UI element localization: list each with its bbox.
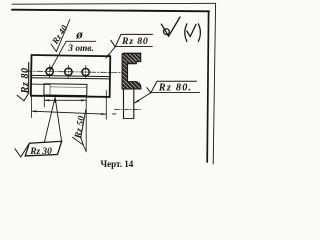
Rz80 mid leader arrow [106,54,110,59]
roughness symbol Rz80 mid: shelf under text [115,46,152,48]
side view: stem bottom [124,117,134,119]
small dash right of extension [113,113,116,115]
slot inner step vertical [49,84,51,95]
hatch: web [123,63,127,82]
arrowheads [32,54,140,115]
arrow at hole 1 (holes note leader) [49,66,53,71]
roughness symbol Rz80 bottom-right: leader [134,93,151,104]
dimension extension line right (slot, long, carries Rz50) [85,95,87,151]
frame: outer thin top border [12,2,216,5]
roughness symbol Rz80 left: vee [17,93,29,101]
slot width dimension line [44,99,86,101]
hole 2 [65,68,73,76]
overall dim left arrow [32,110,37,112]
side view: section outline [122,53,141,89]
horizontal centerline through holes [26,71,125,73]
svg-text:Rz 80.: Rz 80. [158,83,193,94]
hole 3 [82,68,90,76]
step line 1 [31,75,110,76]
leader from hole 1 to holes note [50,41,67,71]
parenthesis right [198,24,200,42]
roughness symbol Rz50: leg [81,110,86,138]
hatch: middle flange [123,82,140,88]
frame: inner thick top border [12,10,209,12]
overall dimension line [31,111,106,114]
side view: lower stem right edge [133,89,135,118]
roughness symbol Rz80 mid: vee and bar [111,34,153,46]
slot rectangle [44,84,87,96]
frame: outer thin right border [213,4,215,164]
roughness symbol Rz40: long leg [56,20,69,52]
parenthesis left [185,24,187,42]
holes note shelf [66,40,96,42]
roughness symbol Rz80 mid: leader [106,47,115,58]
extension line right lower [105,91,107,120]
svg-text:ø: ø [75,27,83,42]
Rz30 leader spike [44,97,61,142]
svg-text:Rz 30: Rz 30 [29,147,52,157]
side view: lower centerline [115,108,141,110]
plate outline (front view) [31,55,110,97]
Rz30 tick [15,143,29,157]
roughness symbol Rz50: vee [73,137,87,152]
svg-text:3 отв.: 3 отв. [67,44,94,54]
hole 1 [46,68,54,76]
step ledge line [31,83,50,85]
dimension extension line left (slot) [43,96,45,107]
frame: inner thick right border [207,11,208,162]
Rz80 bottom leader arrow [134,100,139,104]
hatching of section [123,54,140,88]
roughness symbol Rz80 bottom-right: shelf under text [151,91,200,93]
hole 3 vertical centerline [85,65,87,78]
extension line plate left [30,97,32,118]
slot dim right arrow [81,99,86,101]
general roughness mark (checkmark with circle) [161,17,180,36]
roughness symbol Rz40 on top edge: short leg [51,44,56,51]
roughness symbol Rz80 left: bar [28,63,30,94]
inner small tick [187,24,196,36]
step line 2 [31,78,110,79]
Rz30 parallelogram box [25,141,62,156]
hatch: top flange [123,54,140,61]
svg-text:Rz 80: Rz 80 [121,36,149,47]
Rz30 spike tip [54,97,57,103]
overall dim right arrow [101,113,106,115]
hatch: flange lip band [123,61,136,63]
slot dim left arrow [45,99,50,101]
svg-text:Черт. 14: Черт. 14 [101,159,134,169]
hole 1 vertical centerline [49,65,51,78]
side view: lower stem left edge [123,89,125,118]
roughness symbol Rz80 bottom-right: vee and bar [147,81,197,93]
slot inner step line [50,86,87,89]
hole 2 vertical centerline [67,65,69,78]
svg-text:Rz 80: Rz 80 [20,67,31,94]
